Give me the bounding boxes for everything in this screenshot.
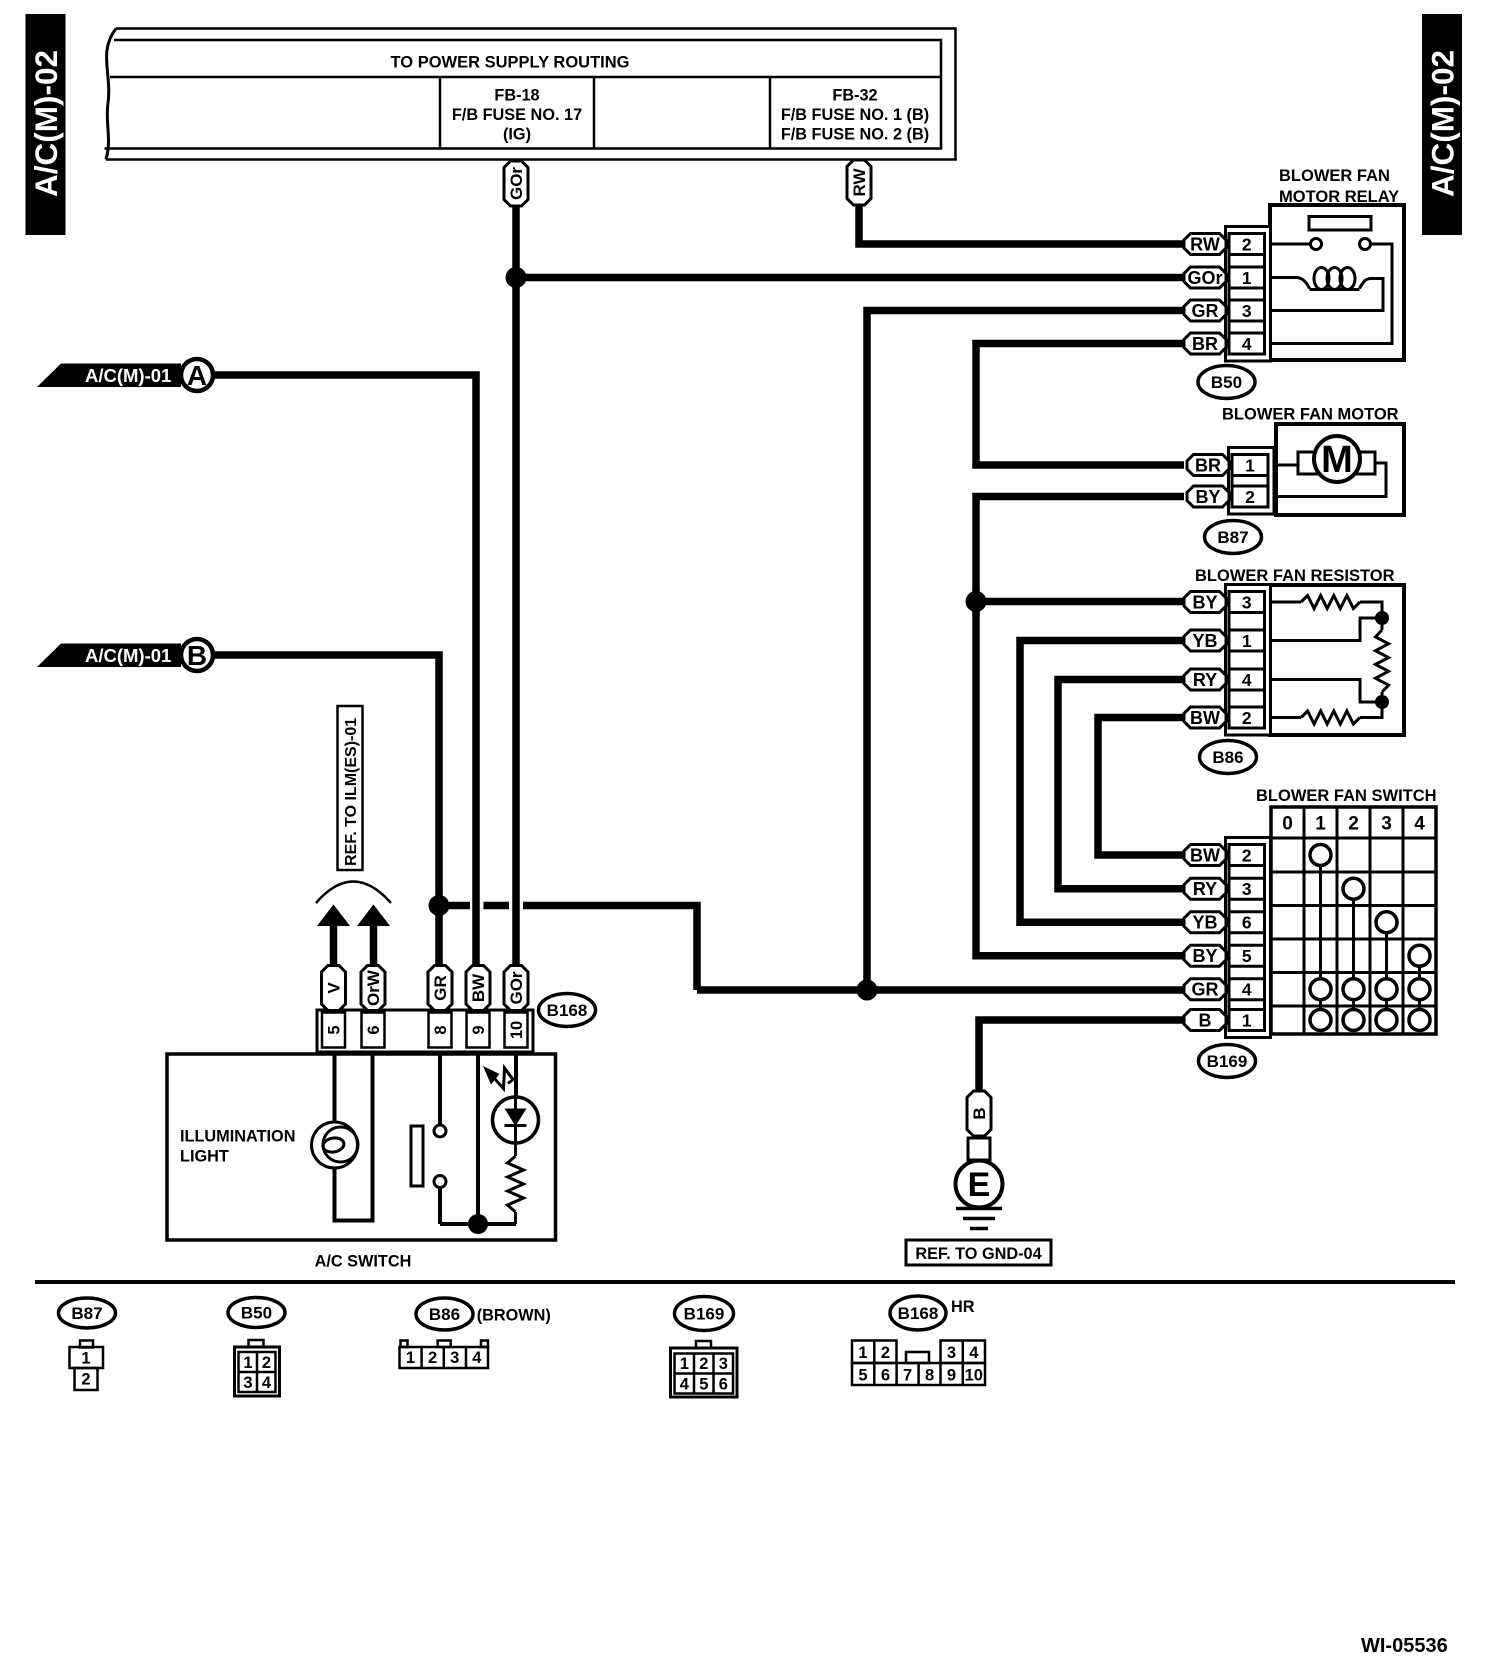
svg-text:V: V (325, 982, 344, 994)
svg-text:8: 8 (925, 1367, 934, 1385)
svg-text:1: 1 (1315, 814, 1326, 835)
svg-text:B169: B169 (684, 1305, 725, 1324)
svg-text:6: 6 (365, 1025, 383, 1034)
svg-text:3: 3 (1242, 592, 1252, 612)
svg-text:YB: YB (1192, 913, 1217, 933)
svg-text:ILLUMINATION: ILLUMINATION (180, 1128, 295, 1146)
svg-text:GOr: GOr (507, 167, 526, 200)
svg-text:B87: B87 (71, 1304, 102, 1323)
svg-text:TO POWER SUPPLY ROUTING: TO POWER SUPPLY ROUTING (391, 54, 630, 72)
svg-text:GOr: GOr (507, 971, 526, 1004)
svg-text:2: 2 (1242, 234, 1252, 254)
svg-text:1: 1 (1242, 631, 1252, 651)
svg-text:1: 1 (81, 1350, 90, 1368)
svg-text:1: 1 (1242, 268, 1252, 288)
svg-text:A/C(M)-02: A/C(M)-02 (1425, 50, 1461, 197)
svg-text:3: 3 (243, 1374, 252, 1392)
svg-text:BLOWER FAN SWITCH: BLOWER FAN SWITCH (1256, 787, 1437, 805)
svg-text:2: 2 (699, 1355, 708, 1373)
svg-text:3: 3 (719, 1355, 728, 1373)
svg-text:RW: RW (1190, 235, 1220, 255)
svg-text:E: E (968, 1166, 991, 1204)
svg-text:M: M (1321, 439, 1353, 481)
svg-text:5: 5 (1242, 946, 1252, 966)
svg-text:6: 6 (881, 1367, 890, 1385)
svg-text:5: 5 (858, 1367, 867, 1385)
svg-text:BY: BY (1195, 487, 1220, 507)
svg-text:6: 6 (719, 1376, 728, 1394)
svg-text:1: 1 (1242, 1010, 1252, 1030)
svg-text:9: 9 (947, 1367, 956, 1385)
svg-text:OrW: OrW (364, 969, 383, 1006)
svg-text:3: 3 (947, 1344, 956, 1362)
svg-text:A/C(M)-02: A/C(M)-02 (28, 50, 64, 197)
svg-text:10: 10 (508, 1021, 526, 1039)
svg-text:B169: B169 (1207, 1052, 1248, 1071)
svg-text:BLOWER FAN RESISTOR: BLOWER FAN RESISTOR (1195, 567, 1395, 585)
svg-text:BLOWER FAN MOTOR: BLOWER FAN MOTOR (1222, 406, 1399, 424)
svg-text:4: 4 (969, 1344, 979, 1362)
svg-text:4: 4 (1242, 334, 1252, 354)
svg-text:4: 4 (1414, 814, 1425, 835)
svg-text:2: 2 (262, 1354, 271, 1372)
svg-text:LIGHT: LIGHT (180, 1148, 229, 1166)
svg-text:3: 3 (1381, 814, 1392, 835)
svg-text:6: 6 (1242, 913, 1252, 933)
svg-text:B: B (970, 1107, 989, 1119)
svg-text:3: 3 (1242, 879, 1252, 899)
svg-text:2: 2 (1242, 845, 1252, 865)
svg-text:4: 4 (1242, 980, 1252, 1000)
svg-text:A/C(M)-01: A/C(M)-01 (85, 645, 171, 666)
svg-text:8: 8 (432, 1025, 450, 1034)
svg-text:B50: B50 (1211, 373, 1242, 392)
svg-text:HR: HR (951, 1298, 975, 1316)
svg-text:(IG): (IG) (503, 126, 531, 144)
svg-text:5: 5 (699, 1376, 708, 1394)
svg-text:7: 7 (903, 1367, 912, 1385)
svg-text:GR: GR (1192, 980, 1219, 1000)
svg-text:BR: BR (1195, 456, 1221, 476)
svg-text:GR: GR (1192, 301, 1219, 321)
svg-text:(BROWN): (BROWN) (477, 1307, 551, 1325)
svg-text:REF. TO ILM(ES)-01: REF. TO ILM(ES)-01 (343, 718, 360, 866)
svg-text:BY: BY (1192, 593, 1217, 613)
svg-text:FB-18: FB-18 (494, 87, 539, 105)
svg-text:BW: BW (1190, 708, 1220, 728)
svg-text:2: 2 (1242, 708, 1252, 728)
svg-text:4: 4 (680, 1376, 690, 1394)
svg-text:RW: RW (850, 168, 869, 197)
svg-text:4: 4 (262, 1374, 272, 1392)
svg-text:F/B FUSE NO. 2 (B): F/B FUSE NO. 2 (B) (781, 126, 929, 144)
svg-text:1: 1 (1245, 455, 1255, 475)
svg-text:BR: BR (1192, 334, 1218, 354)
svg-text:2: 2 (81, 1371, 90, 1389)
svg-text:4: 4 (1242, 670, 1252, 690)
svg-text:B168: B168 (898, 1304, 939, 1323)
svg-text:F/B FUSE NO. 1 (B): F/B FUSE NO. 1 (B) (781, 106, 929, 124)
svg-text:5: 5 (326, 1025, 344, 1034)
svg-text:YB: YB (1192, 631, 1217, 651)
svg-text:FB-32: FB-32 (832, 87, 877, 105)
svg-text:BY: BY (1192, 946, 1217, 966)
svg-text:0: 0 (1282, 814, 1293, 835)
svg-text:REF. TO GND-04: REF. TO GND-04 (915, 1245, 1041, 1263)
svg-text:1: 1 (406, 1349, 415, 1367)
svg-text:2: 2 (881, 1344, 890, 1362)
svg-text:A: A (187, 360, 207, 391)
svg-text:3: 3 (1242, 301, 1252, 321)
svg-text:B50: B50 (241, 1304, 272, 1323)
svg-text:WI-05536: WI-05536 (1361, 1635, 1448, 1657)
svg-text:B86: B86 (429, 1305, 460, 1324)
svg-text:BLOWER FAN: BLOWER FAN (1279, 167, 1390, 185)
svg-text:10: 10 (965, 1367, 983, 1385)
svg-text:GOr: GOr (1187, 268, 1222, 288)
svg-text:3: 3 (450, 1349, 459, 1367)
svg-text:1: 1 (858, 1344, 867, 1362)
svg-text:RY: RY (1193, 670, 1217, 690)
svg-text:F/B FUSE NO. 17: F/B FUSE NO. 17 (452, 106, 582, 124)
svg-text:A/C(M)-01: A/C(M)-01 (85, 365, 171, 386)
svg-text:A/C SWITCH: A/C SWITCH (315, 1253, 412, 1271)
svg-text:1: 1 (680, 1355, 689, 1373)
svg-text:4: 4 (472, 1349, 482, 1367)
svg-text:BW: BW (1190, 846, 1220, 866)
svg-text:RY: RY (1193, 879, 1217, 899)
svg-text:BW: BW (469, 973, 488, 1002)
svg-text:2: 2 (1348, 814, 1359, 835)
svg-text:B: B (1199, 1011, 1212, 1031)
svg-text:B168: B168 (547, 1001, 588, 1020)
svg-text:2: 2 (1245, 487, 1255, 507)
svg-text:GR: GR (431, 975, 450, 1001)
svg-text:B: B (187, 640, 207, 671)
svg-text:2: 2 (428, 1349, 437, 1367)
svg-text:9: 9 (470, 1025, 488, 1034)
svg-text:1: 1 (243, 1354, 252, 1372)
svg-text:B87: B87 (1217, 528, 1248, 547)
svg-text:B86: B86 (1212, 748, 1243, 767)
